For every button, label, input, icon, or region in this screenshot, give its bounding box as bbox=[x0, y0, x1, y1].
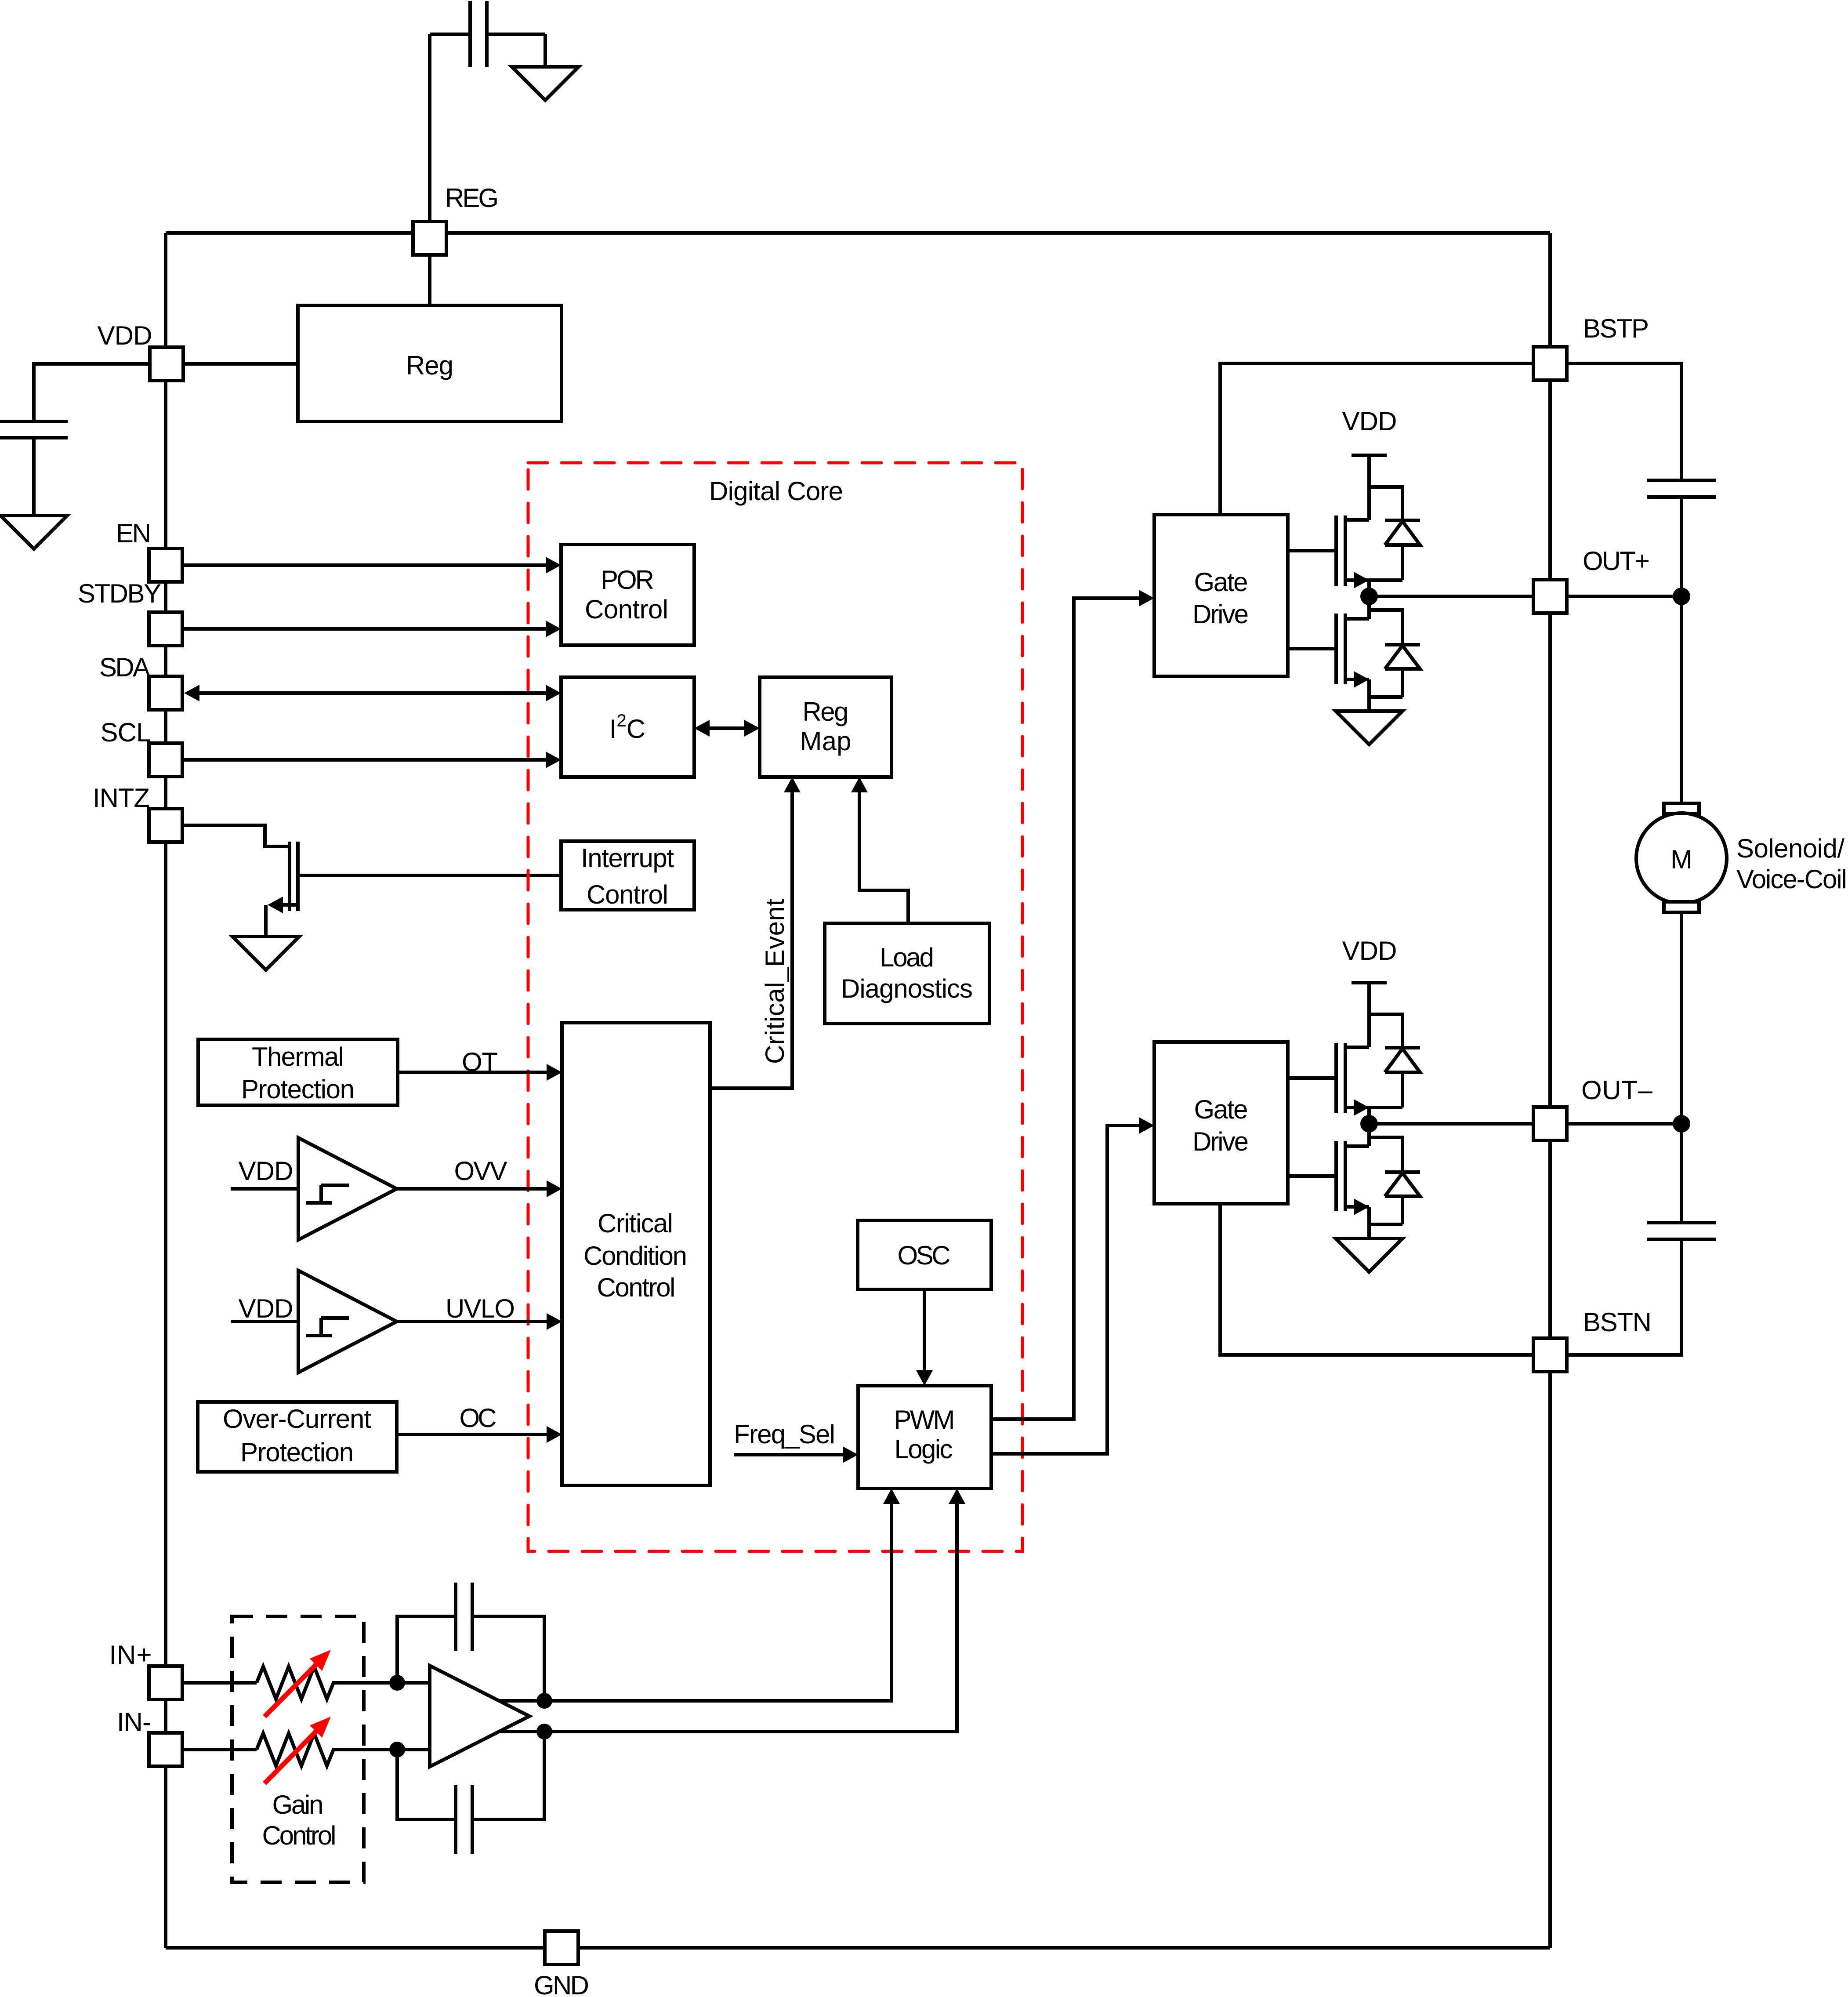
wire drain 1 bbox=[1345, 518, 1369, 522]
svg-text:Digital Core: Digital Core bbox=[709, 476, 843, 506]
comparator OVV bbox=[298, 1138, 397, 1240]
wire top rail REG net bbox=[166, 231, 1550, 235]
svg-text:OT: OT bbox=[462, 1047, 498, 1077]
svg-text:VDD: VDD bbox=[1342, 936, 1397, 966]
svg-text:POR: POR bbox=[601, 565, 654, 595]
pin SCL bbox=[149, 743, 182, 777]
diode D1 (high-side body diode) bbox=[1385, 520, 1420, 580]
svg-text:VDD: VDD bbox=[239, 1294, 294, 1323]
pin OUT- bbox=[1533, 1107, 1567, 1140]
wire OUT to pad bbox=[1369, 595, 1533, 598]
wire load to OUT- net bbox=[1680, 914, 1683, 1221]
block I2C bbox=[561, 677, 694, 777]
svg-text:OUT–: OUT– bbox=[1581, 1075, 1653, 1105]
digital core boundary (red dashed) bbox=[528, 463, 1022, 1551]
wire source 1 with arrow bbox=[1345, 580, 1402, 596]
block Interrupt Control bbox=[561, 841, 694, 910]
svg-text:Control: Control bbox=[262, 1821, 337, 1850]
svg-text:Control: Control bbox=[585, 595, 668, 624]
svg-text:Voice-Coil: Voice-Coil bbox=[1736, 864, 1847, 894]
block Load Diagnostics bbox=[825, 923, 989, 1024]
wire op-amp output 2 to PWM Logic bbox=[499, 1503, 957, 1732]
wire R1 to op-amp bbox=[339, 1681, 430, 1685]
pin GND bbox=[545, 1931, 578, 1964]
transistor M1 (high-side) bbox=[1336, 516, 1345, 586]
wire OVV bbox=[397, 1187, 547, 1191]
wire drain branch to body diode D1 bbox=[1369, 487, 1402, 520]
wire Q1 drain to Interrupt Control bbox=[300, 874, 561, 877]
svg-text:M: M bbox=[1670, 845, 1692, 874]
wire C-BSTP to OUT+ net bbox=[1680, 497, 1683, 803]
wire source 2 to ground bbox=[1345, 679, 1369, 711]
wire INTZ to open-drain FET gate bbox=[182, 825, 288, 846]
svg-text:Gate: Gate bbox=[1194, 1095, 1248, 1124]
capacitor C-VDD bbox=[0, 421, 68, 516]
svg-text:EN: EN bbox=[116, 519, 151, 548]
wire C-BSTN to BSTN pad bbox=[1567, 1239, 1681, 1355]
svg-text:Logic: Logic bbox=[895, 1434, 953, 1464]
wire gate 2 bbox=[1288, 647, 1334, 650]
wire OT bbox=[398, 1071, 547, 1074]
gain control boundary (black dashed) bbox=[232, 1616, 364, 1882]
wire to low-side drain and body diode D2 bbox=[1369, 596, 1402, 645]
capacitor C-BSTP bbox=[1647, 480, 1716, 497]
wire REG pad to Reg block bbox=[428, 255, 431, 305]
node input- junction dot bbox=[389, 1742, 405, 1757]
capacitor C-BSTN bbox=[1647, 1223, 1716, 1239]
wire OUT- pad to load bbox=[1567, 1122, 1681, 1126]
wire bottom rail GND net bbox=[166, 1946, 1550, 1950]
capacitor C-REG (REG decoupling) bbox=[430, 1, 545, 67]
wire OSC to PWM Logic bbox=[923, 1289, 926, 1371]
half-bridge 1 (high/low FETs with body diodes) bbox=[1288, 455, 1533, 744]
ground for Q1 bbox=[232, 937, 299, 970]
wire Gate Drive 1 to BSTP bbox=[1220, 363, 1533, 515]
node output+ junction dot bbox=[536, 1693, 552, 1709]
wire OC bbox=[397, 1433, 547, 1436]
block Reg Map bbox=[760, 677, 891, 777]
node Critical_Event wire to Reg Map bbox=[710, 792, 792, 1088]
svg-text:VDD: VDD bbox=[239, 1156, 294, 1186]
pin VDD bbox=[150, 347, 183, 381]
wire PWM output 1 to Gate Drive 1 bbox=[991, 598, 1139, 1419]
pin INTZ bbox=[149, 809, 182, 842]
svg-text:PWM: PWM bbox=[894, 1405, 955, 1434]
svg-text:Gate: Gate bbox=[1194, 567, 1248, 597]
pin SDA bbox=[149, 676, 182, 710]
block PWM Logic bbox=[858, 1386, 991, 1489]
svg-text:Condition: Condition bbox=[583, 1241, 687, 1271]
node output- junction dot bbox=[536, 1724, 552, 1739]
wire left rail (device boundary) bbox=[164, 233, 167, 1948]
svg-text:IN-: IN- bbox=[117, 1707, 151, 1737]
wire SDA to I2C (bidirectional) bbox=[199, 691, 546, 695]
half-bridge 2 (reuse of half-bridge 1) bbox=[1288, 983, 1533, 1272]
svg-text:SDA: SDA bbox=[99, 653, 150, 682]
svg-text:Critical_Event: Critical_Event bbox=[760, 899, 790, 1064]
wire Q1 source to ground bbox=[266, 905, 296, 937]
wire right column BSTP to bottom rail bbox=[1548, 233, 1552, 1948]
block Gate Drive 2 bbox=[1154, 1042, 1288, 1204]
svg-text:Protection: Protection bbox=[240, 1438, 354, 1467]
wire I2C to Reg Map (bidirectional) bbox=[709, 726, 745, 730]
regulator block Reg bbox=[298, 305, 562, 421]
svg-text:Solenoid/: Solenoid/ bbox=[1736, 834, 1844, 863]
pin BSTP bbox=[1533, 347, 1567, 380]
svg-text:BSTN: BSTN bbox=[1583, 1307, 1652, 1337]
wire op-amp output 1 to PWM Logic bbox=[499, 1503, 891, 1701]
wire PWM output 2 to Gate Drive 2 bbox=[991, 1126, 1139, 1454]
svg-text:Diagnostics: Diagnostics bbox=[841, 974, 973, 1003]
resistor R1 (variable, IN+) bbox=[257, 1667, 339, 1699]
node OUT junction dot bbox=[1360, 588, 1378, 605]
wire feedback bottom bbox=[397, 1732, 544, 1819]
svg-text:OSC: OSC bbox=[898, 1241, 951, 1270]
pin IN+ bbox=[149, 1666, 182, 1699]
diode D2 (low-side body diode) bbox=[1369, 645, 1420, 697]
op-amp U1 (differential input amplifier) bbox=[430, 1666, 529, 1767]
svg-text:Drive: Drive bbox=[1192, 1127, 1249, 1156]
block Over-Current Protection bbox=[198, 1402, 397, 1472]
transistor M2 (low-side) bbox=[1336, 614, 1345, 684]
svg-text:IN+: IN+ bbox=[109, 1640, 152, 1670]
pin OUT+ bbox=[1533, 580, 1567, 613]
svg-text:Reg: Reg bbox=[406, 351, 453, 380]
pin REG bbox=[413, 221, 446, 255]
pin IN- bbox=[149, 1733, 182, 1766]
wire IN- to resistor R2 bbox=[182, 1748, 257, 1751]
svg-text:STDBY: STDBY bbox=[78, 579, 161, 608]
red adjust arrow R2 bbox=[265, 1730, 318, 1783]
wire feedback top bbox=[397, 1616, 544, 1701]
wire BSTP to boost cap C-BSTP bbox=[1567, 363, 1681, 480]
svg-text:VDD: VDD bbox=[1342, 407, 1397, 436]
svg-text:OUT+: OUT+ bbox=[1583, 546, 1650, 576]
svg-text:Over-Current: Over-Current bbox=[223, 1404, 371, 1434]
wire drain 2 bbox=[1345, 617, 1369, 621]
motor M (solenoid / voice-coil load) bbox=[1664, 803, 1699, 814]
ground for C-VDD bbox=[0, 516, 67, 549]
node OUT- junction dot bbox=[1673, 1115, 1690, 1133]
svg-text:Interrupt: Interrupt bbox=[581, 843, 674, 873]
block Gate Drive 1 bbox=[1154, 515, 1288, 676]
svg-text:Gain: Gain bbox=[272, 1790, 324, 1819]
block OSC bbox=[858, 1220, 991, 1289]
svg-text:Reg: Reg bbox=[803, 697, 849, 726]
svg-text:VDD: VDD bbox=[98, 321, 152, 350]
svg-text:OC: OC bbox=[460, 1403, 497, 1433]
svg-text:Control: Control bbox=[587, 880, 668, 909]
svg-text:INTZ: INTZ bbox=[93, 783, 150, 813]
capacitor C-FB2 bbox=[456, 1785, 472, 1854]
svg-text:Protection: Protection bbox=[241, 1075, 355, 1104]
svg-text:I2C: I2C bbox=[609, 711, 645, 744]
wire VDD pad to Reg block bbox=[183, 362, 298, 366]
svg-text:UVLO: UVLO bbox=[446, 1294, 515, 1323]
wire IN+ to resistor R1 bbox=[182, 1681, 257, 1685]
svg-text:OVV: OVV bbox=[454, 1156, 507, 1186]
resistor R2 (variable, IN-) bbox=[257, 1733, 339, 1766]
wire EN to POR Control bbox=[182, 563, 546, 567]
wire OUT+ pad to load bbox=[1567, 595, 1681, 598]
svg-text:Map: Map bbox=[800, 726, 852, 756]
svg-text:Drive: Drive bbox=[1192, 599, 1249, 629]
comparator UVLO bbox=[298, 1271, 397, 1372]
ground for C-REG bbox=[512, 67, 579, 100]
pin BSTN bbox=[1533, 1338, 1567, 1372]
wire Load Diagnostics to Reg Map bbox=[859, 792, 908, 923]
svg-text:GND: GND bbox=[534, 1971, 589, 1997]
block POR Control bbox=[561, 545, 694, 645]
svg-text:SCL: SCL bbox=[101, 718, 151, 747]
svg-text:Thermal: Thermal bbox=[252, 1042, 344, 1071]
wire R2 to op-amp bbox=[339, 1748, 430, 1751]
power supply VDD tap bbox=[1352, 455, 1387, 520]
wire Gate Drive 2 to BSTN bbox=[1220, 1204, 1533, 1355]
svg-text:Control: Control bbox=[597, 1273, 676, 1302]
pin STDBY bbox=[149, 612, 182, 646]
svg-text:Load: Load bbox=[880, 943, 934, 972]
ground for half-bridge bbox=[1336, 711, 1402, 744]
red adjust arrow R1 bbox=[265, 1663, 318, 1717]
wire STDBY to POR Control bbox=[182, 627, 546, 631]
transistor Q1 (INTZ open-drain) bbox=[290, 842, 298, 911]
svg-text:REG: REG bbox=[445, 183, 499, 213]
wire gate 1 bbox=[1288, 549, 1334, 552]
block Critical Condition Control bbox=[562, 1023, 710, 1485]
node OUT+ junction dot bbox=[1673, 588, 1690, 605]
node input+ junction dot bbox=[389, 1675, 405, 1691]
svg-text:Freq_Sel: Freq_Sel bbox=[734, 1420, 835, 1449]
svg-text:Critical: Critical bbox=[598, 1209, 673, 1238]
wire UVLO bbox=[397, 1320, 547, 1323]
block Thermal Protection bbox=[198, 1039, 398, 1105]
pin EN bbox=[149, 548, 182, 582]
wire SCL to I2C bbox=[182, 758, 546, 762]
wire VDD pad to C-VDD bbox=[34, 364, 150, 421]
svg-text:BSTP: BSTP bbox=[1583, 314, 1649, 343]
capacitor C-FB1 bbox=[456, 1583, 472, 1651]
wire REG pad to cap bbox=[428, 34, 431, 221]
